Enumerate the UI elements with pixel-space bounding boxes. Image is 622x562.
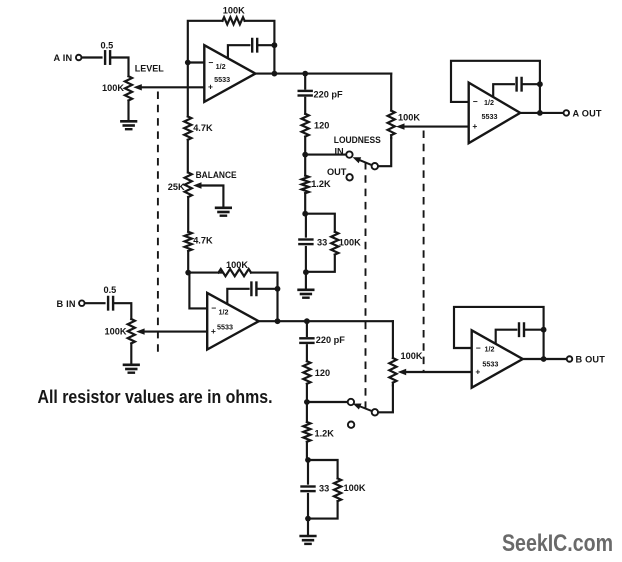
- svg-text:LEVEL: LEVEL: [135, 64, 164, 74]
- potentiometer loudness A 100K: [388, 111, 395, 136]
- svg-text:−: −: [476, 343, 481, 353]
- svg-text:120: 120: [314, 121, 329, 131]
- svg-text:4.7K: 4.7K: [193, 123, 213, 133]
- svg-text:B OUT: B OUT: [576, 354, 606, 364]
- junction U4 output: [541, 356, 547, 362]
- junction A chain bottom: [303, 269, 309, 275]
- svg-text:+: +: [472, 121, 477, 131]
- wire U1 output row: [255, 73, 391, 75]
- wire U2 output: [520, 112, 563, 114]
- svg-text:33: 33: [319, 483, 329, 493]
- capacitor C8 220pF: [300, 337, 313, 339]
- wire B IN to C6: [85, 302, 104, 304]
- switch pivot A: [372, 163, 378, 169]
- switch contact OUT A: [346, 174, 352, 180]
- resistor R5 1.2K: [302, 176, 309, 194]
- svg-text:SeekIC.com: SeekIC.com: [502, 530, 613, 557]
- junction U1 output: [272, 71, 278, 77]
- wire to ground B chain: [307, 519, 309, 536]
- wire row to loudness pot A: [390, 74, 392, 111]
- svg-text:+: +: [208, 82, 213, 92]
- wire C4 to bottom node: [305, 247, 307, 272]
- svg-text:−: −: [209, 57, 214, 67]
- junction C7 to feedback: [275, 286, 281, 292]
- wire node to R10 top: [308, 460, 338, 478]
- ground B chain: [301, 535, 316, 538]
- switch contact IN B: [348, 399, 354, 405]
- dashed gang line switches: [365, 162, 367, 409]
- wire R2 to balance pot: [187, 140, 189, 173]
- wire R4 to IN node: [304, 137, 306, 155]
- svg-text:100K: 100K: [226, 260, 248, 270]
- svg-text:220 pF: 220 pF: [316, 335, 345, 345]
- wire A chain 1.2K: [304, 155, 306, 176]
- svg-text:5533: 5533: [214, 75, 230, 84]
- capacitor C3 220pF: [299, 90, 312, 92]
- potentiometer level A 100K: [125, 76, 132, 100]
- resistor R4 120: [302, 114, 309, 137]
- junction B chain bottom: [305, 516, 311, 522]
- svg-text:4.7K: 4.7K: [193, 236, 213, 246]
- wire switch B to pot: [378, 385, 393, 412]
- wire C8 to R8: [306, 345, 308, 361]
- dashed gang line pots: [157, 92, 159, 356]
- capacitor C6 0.5: [107, 297, 109, 310]
- wire C9 to bottom node B: [307, 494, 309, 519]
- svg-text:1/2: 1/2: [485, 345, 495, 354]
- resistor R3 4.7K: [185, 232, 192, 251]
- svg-text:100K: 100K: [223, 6, 245, 16]
- wire balance wiper to ground: [202, 186, 224, 208]
- op-amp U2 1/2 5533: [469, 83, 521, 144]
- svg-text:33: 33: [317, 237, 327, 247]
- capacitor C9 33: [302, 485, 315, 487]
- resistor R9 1.2K: [303, 422, 310, 442]
- junction C5 to feedback: [537, 81, 543, 87]
- svg-text:100K: 100K: [105, 326, 127, 336]
- wire to ground A chain: [305, 272, 307, 290]
- wire U3 output row: [259, 320, 393, 322]
- wire switch A to pot: [378, 138, 391, 166]
- svg-text:220 pF: 220 pF: [314, 90, 343, 100]
- ground level pot A: [121, 120, 136, 123]
- wire U1 minus input: [188, 61, 205, 63]
- svg-text:100K: 100K: [102, 83, 124, 93]
- ground A chain: [299, 288, 314, 291]
- switch arm B: [360, 407, 372, 412]
- svg-text:+: +: [475, 366, 480, 376]
- wire R10 to bottom node B: [308, 501, 338, 518]
- capacitor C7 feedback U3 riser: [227, 289, 248, 304]
- svg-text:5533: 5533: [482, 112, 498, 121]
- wire A IN to C1: [82, 56, 101, 58]
- resistor R6 100K: [331, 232, 338, 255]
- svg-text:100K: 100K: [344, 483, 366, 493]
- junction U3 output: [275, 318, 281, 324]
- potentiometer balance 25K: [185, 173, 192, 198]
- wire node to C9: [307, 460, 309, 484]
- wire level pot B to ground: [130, 343, 132, 364]
- capacitor C10 feedback U4: [518, 323, 520, 336]
- wire U2 feedback loop: [451, 61, 540, 113]
- ground balance: [216, 207, 231, 210]
- op-amp U1 1/2 5533: [204, 45, 255, 102]
- svg-text:25K: 25K: [168, 182, 185, 192]
- svg-text:+: +: [211, 326, 216, 336]
- resistor R8 120: [303, 361, 310, 384]
- junction A chain top: [302, 71, 308, 77]
- svg-text:100K: 100K: [398, 112, 420, 122]
- capacitor C5 feedback U2 riser: [493, 84, 514, 97]
- junction B chain top: [304, 318, 310, 324]
- wire R9 to node: [306, 442, 308, 460]
- wire R5 to node: [304, 193, 306, 214]
- op-amp U3 1/2 5533: [207, 293, 259, 350]
- wire level pot A wiper: [142, 86, 205, 88]
- capacitor C1 0.5: [104, 51, 106, 64]
- op-amp U4 1/2 5533: [472, 330, 523, 387]
- junction B chain mid: [305, 457, 311, 463]
- wire loudness pot A stem: [390, 135, 392, 138]
- switch contact OUT B: [348, 422, 354, 428]
- svg-text:LOUDNESS: LOUDNESS: [334, 135, 381, 145]
- wire C6 to level pot B: [114, 303, 132, 319]
- wire row to loudness pot B: [392, 321, 394, 358]
- wire A chain to C3: [304, 74, 306, 89]
- svg-text:5533: 5533: [482, 359, 498, 368]
- switch pivot B: [372, 409, 378, 415]
- junction U1 minus input: [185, 60, 191, 66]
- junction B IN node: [304, 399, 310, 405]
- svg-text:All resistor values are in ohm: All resistor values are in ohms.: [38, 386, 273, 407]
- terminal B OUT: [567, 356, 573, 362]
- capacitor C2 feedback U1: [251, 39, 253, 52]
- wire loudness B wiper to U4: [406, 371, 472, 373]
- resistor R7 100K feedback U3: [219, 269, 252, 276]
- wire U3 feedback right: [251, 273, 278, 322]
- wire U4 output: [523, 358, 567, 360]
- wire R6 to bottom node: [306, 255, 335, 272]
- wire IN node to IN contact B: [307, 401, 348, 403]
- svg-text:A OUT: A OUT: [573, 108, 602, 118]
- wire U1 minus to R2: [187, 63, 189, 117]
- capacitor C7 feedback U3: [250, 283, 252, 296]
- wire balance pot to R3: [187, 197, 189, 232]
- resistor R10 100K: [334, 478, 341, 501]
- wire level pot B wiper: [145, 331, 208, 333]
- svg-text:100K: 100K: [401, 351, 423, 361]
- capacitor C10 feedback U4 riser: [496, 330, 517, 344]
- ground level pot B: [124, 363, 139, 366]
- svg-text:1/2: 1/2: [484, 98, 494, 107]
- capacitor C2 feedback U1 riser: [228, 45, 250, 58]
- svg-text:120: 120: [315, 368, 330, 378]
- svg-text:100K: 100K: [339, 237, 361, 247]
- wire U3 minus input: [189, 273, 207, 309]
- resistor R2 4.7K: [184, 117, 191, 140]
- switch contact IN A: [346, 151, 352, 157]
- wire node to C4: [305, 214, 307, 237]
- svg-text:B IN: B IN: [57, 299, 76, 309]
- capacitor C4 33: [299, 238, 312, 240]
- svg-text:1/2: 1/2: [216, 62, 226, 71]
- svg-text:−: −: [211, 303, 216, 313]
- svg-text:1.2K: 1.2K: [311, 179, 331, 189]
- svg-text:0.5: 0.5: [101, 41, 114, 51]
- wire level pot A to ground: [127, 101, 129, 122]
- potentiometer level B 100K: [128, 319, 135, 343]
- svg-text:0.5: 0.5: [104, 285, 117, 295]
- junction A IN node: [302, 152, 308, 158]
- capacitor C5 feedback U2: [515, 78, 517, 91]
- wire B chain 1.2K: [306, 402, 308, 422]
- svg-text:1.2K: 1.2K: [315, 428, 335, 438]
- junction C10 to feedback: [541, 327, 547, 333]
- wire U4 feedback loop: [454, 307, 544, 359]
- wire loudness pot B stem: [392, 383, 394, 386]
- junction A chain mid: [302, 211, 308, 217]
- wire loudness A wiper to U2: [405, 126, 469, 128]
- junction C2 to feedback: [272, 42, 278, 48]
- wire B chain to C8: [306, 321, 308, 336]
- dashed gang line loudness pots: [423, 131, 425, 372]
- svg-text:BALANCE: BALANCE: [196, 170, 237, 180]
- svg-text:IN: IN: [335, 146, 345, 156]
- svg-text:1/2: 1/2: [219, 308, 229, 317]
- wire IN node to IN contact: [305, 154, 346, 156]
- wire C1 to level pot: [111, 58, 129, 77]
- potentiometer loudness B 100K: [389, 358, 396, 383]
- svg-text:OUT: OUT: [327, 167, 347, 177]
- wire U1 feedback right: [245, 21, 275, 74]
- junction U2 output: [537, 110, 543, 116]
- wire node to R6 top: [305, 214, 335, 232]
- svg-text:−: −: [473, 97, 478, 107]
- junction balance to U3 feedback: [185, 270, 191, 276]
- wire R3 to U3 junction: [187, 251, 189, 273]
- svg-text:5533: 5533: [217, 322, 233, 331]
- wire U3 feedback left: [188, 272, 222, 274]
- wire C3 to R4: [304, 98, 306, 114]
- svg-text:A IN: A IN: [54, 53, 73, 63]
- wire U1 feedback left: [188, 21, 223, 63]
- switch arm A: [360, 160, 372, 165]
- resistor R1 100K feedback U1: [223, 17, 245, 24]
- terminal B IN: [79, 300, 85, 306]
- terminal A OUT: [564, 110, 570, 116]
- terminal A IN: [76, 55, 82, 61]
- wire R8 to IN node B: [306, 384, 308, 402]
